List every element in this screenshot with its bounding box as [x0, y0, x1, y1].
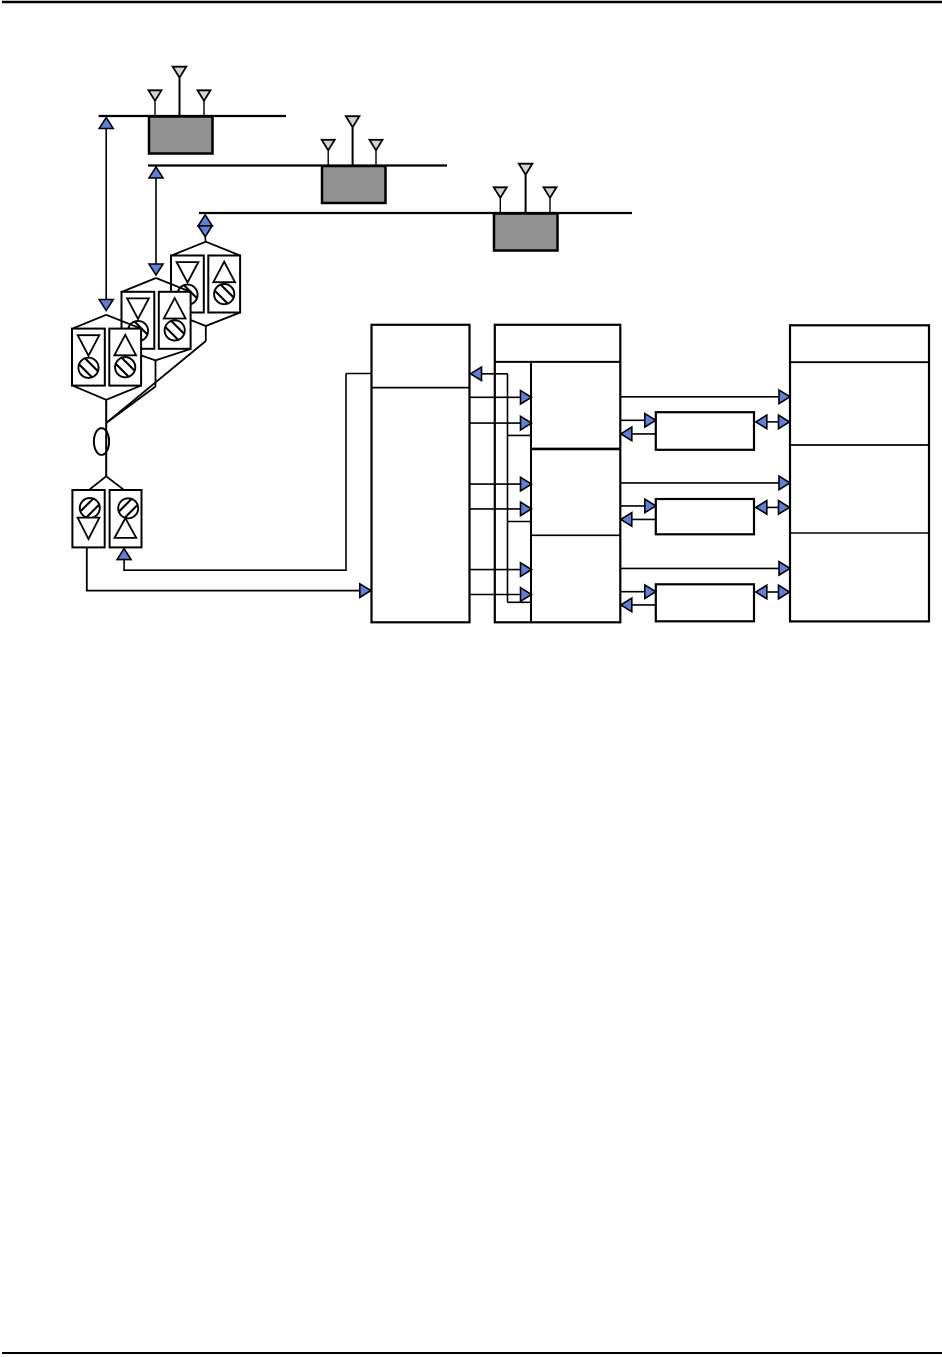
wire duplexer B drop — [155, 360, 157, 386]
duplexer unit A top roof — [73, 315, 107, 329]
duplexer C TX amplifier — [213, 262, 235, 283]
block U2 subbox divider 1 — [531, 448, 620, 451]
antenna mast right 2 — [375, 150, 377, 165]
arrow U1-U2 link 4 — [521, 502, 532, 516]
wire feeder drop 1 — [105, 129, 107, 300]
wire coupler-U3 3 — [765, 591, 780, 593]
arrow U2 to U1 — [471, 367, 482, 381]
wire feeder drop 3 — [204, 237, 206, 242]
duplexer A bottom roof — [73, 386, 107, 400]
wire U1-U2 link 5 — [470, 569, 521, 571]
wire U2-coupler 1 — [620, 419, 645, 421]
arrow down to duplexer B — [149, 264, 163, 275]
duplexer unit A TX cell — [109, 329, 141, 386]
wire duplexer C diagonal — [106, 341, 206, 423]
arrow down to duplexer A — [99, 300, 113, 311]
radio unit box 3 — [494, 214, 558, 251]
radio unit box 2 — [322, 166, 386, 203]
wire U2-coupler 2 — [620, 505, 645, 507]
duplexer B bottom roof — [122, 349, 156, 361]
block main unit U1 — [372, 325, 470, 623]
arrow U1-U2 link 1 — [521, 391, 532, 405]
wire combiner drop — [105, 400, 107, 477]
wire TX across — [123, 569, 346, 571]
arrow TX into lower filter — [117, 549, 131, 560]
lower filter unit RX cell — [72, 490, 104, 547]
wire TX stem — [123, 560, 125, 571]
arrow coupler-U3 left head 3 — [756, 585, 767, 599]
block U1 divider — [372, 387, 470, 389]
wire U2 stub 1 — [508, 434, 532, 436]
antenna left 3 — [494, 187, 507, 198]
wire RX output across — [87, 590, 360, 592]
duplexer unit A RX cell — [72, 329, 105, 386]
arrow up to feeder 2 — [149, 167, 163, 178]
wire U2-U3 link 2 — [620, 482, 779, 484]
antenna right 2 — [370, 140, 383, 151]
arrow coupler-U3 right head 3 — [779, 585, 790, 599]
arrow U2-coupler 1 — [645, 414, 656, 428]
duplexer B TX amplifier — [164, 298, 186, 319]
duplexer unit B RX cell — [122, 292, 155, 349]
wire coupler-U2 3 — [632, 604, 657, 606]
duplexer A TX filter — [115, 357, 135, 377]
wire U2-U3 link 1 — [620, 396, 779, 398]
wire U2-U1 stem — [482, 373, 508, 375]
duplexer B RX amplifier — [127, 298, 149, 319]
lower filter RX amplifier — [78, 518, 100, 539]
arrow U1-U2 link 3 — [521, 477, 532, 491]
wire U1-U2 link 6 — [470, 594, 521, 596]
page footer rule — [2, 1352, 942, 1354]
block U3 divider 2 — [790, 444, 929, 446]
arrow U2-U3 link 1 — [779, 390, 790, 404]
radio unit box 1 — [149, 117, 213, 154]
antenna center 2 — [346, 116, 360, 127]
wire duplexer C drop — [205, 326, 207, 341]
arrow U2-U3 link 3 — [779, 562, 790, 576]
wire U2-U3 link 3 — [620, 567, 779, 569]
wire TX top across — [346, 373, 372, 375]
block U3 divider 1 — [790, 361, 929, 363]
duplexer A RX amplifier — [78, 335, 100, 356]
duplexer unit C TX cell — [208, 256, 240, 313]
coupler box 1 — [656, 412, 754, 450]
wire U1-U2 link 4 — [470, 508, 521, 510]
wire antenna feeder line 2 — [148, 164, 447, 166]
duplexer unit C top roof — [172, 242, 206, 256]
antenna left 2 — [322, 140, 335, 151]
arrow coupler-U3 left head 2 — [756, 501, 767, 515]
wire coupler-U2 2 — [632, 518, 657, 520]
combiner loop ellipse — [94, 428, 109, 455]
arrow coupler-U2 3 — [621, 598, 632, 612]
antenna left 1 — [149, 90, 162, 101]
arrow coupler-U3 left head 1 — [756, 415, 767, 429]
duplexer unit B top roof — [122, 278, 156, 292]
arrow coupler-U3 right head 2 — [779, 501, 790, 515]
arrow U1-U2 link 2 — [521, 416, 532, 430]
antenna right 1 — [198, 90, 211, 101]
wire coupler-U3 2 — [765, 506, 780, 508]
coupler box 3 — [656, 584, 754, 621]
arrow down from feeder 3 — [198, 226, 212, 237]
wire feeder drop 2 — [155, 178, 157, 264]
block U3 divider 3 — [790, 532, 929, 534]
arrow up to feeder 3 — [198, 215, 212, 226]
duplexer C TX filter — [214, 284, 234, 304]
arrow U1-U2 link 6 — [521, 588, 532, 602]
lower filter unit TX cell — [110, 490, 142, 547]
duplexer A RX filter — [78, 358, 98, 378]
block interface unit U2 — [495, 325, 621, 623]
wire U2 stub 2 — [508, 521, 532, 523]
antenna mast right 3 — [549, 198, 551, 213]
block U2 divider — [495, 361, 621, 363]
arrow U1-U2 link 5 — [521, 563, 532, 577]
arrow RX into main unit — [360, 584, 371, 598]
wire U2 inner riser — [507, 374, 509, 603]
duplexer unit B TX cell — [159, 292, 191, 349]
wire antenna feeder line 3 — [199, 212, 632, 214]
antenna mast center 1 — [179, 77, 181, 116]
lower filter TX amplifier — [115, 518, 137, 538]
block right rack U3 — [790, 325, 929, 621]
duplexer B TX filter — [165, 320, 185, 340]
wire U1-U2 link 3 — [470, 483, 521, 485]
lower filter unit top roof — [89, 476, 107, 490]
wire RX output down — [86, 547, 88, 591]
arrow coupler-U2 2 — [621, 513, 632, 527]
wire U1-U2 link 1 — [470, 396, 521, 398]
antenna mast left 3 — [499, 198, 501, 213]
antenna center 3 — [519, 164, 533, 175]
arrow U2-U3 link 2 — [779, 476, 790, 490]
antenna center 1 — [173, 67, 187, 78]
wire U2-coupler 3 — [620, 591, 645, 593]
block U2 subbox divider 2 — [531, 534, 620, 536]
duplexer C RX amplifier — [177, 262, 199, 283]
block U2 inner column edge — [530, 362, 532, 622]
arrow U2-coupler 2 — [645, 499, 656, 513]
antenna mast center 2 — [352, 127, 354, 166]
page header rule — [2, 1, 942, 4]
antenna right 3 — [544, 187, 557, 198]
duplexer B RX filter — [128, 321, 148, 341]
duplexer C bottom roof — [172, 313, 206, 327]
arrow coupler-U2 1 — [621, 427, 632, 441]
wire coupler-U3 1 — [765, 421, 780, 423]
antenna mast center 3 — [525, 174, 527, 213]
wire U1-U2 link 2 — [470, 422, 521, 424]
wire TX riser — [345, 374, 347, 572]
arrow up to feeder 1 — [99, 118, 113, 129]
coupler box 2 — [656, 499, 754, 534]
antenna mast right 1 — [203, 101, 205, 116]
wire antenna feeder line 1 — [99, 115, 286, 117]
lower filter RX filter — [80, 498, 100, 518]
duplexer C RX filter — [177, 285, 197, 305]
lower filter TX filter — [118, 498, 138, 518]
arrow U2-coupler 3 — [645, 585, 656, 599]
antenna mast left 1 — [154, 101, 156, 116]
duplexer A TX amplifier — [114, 335, 136, 356]
antenna mast left 2 — [327, 150, 329, 165]
wire U2 stub 3 — [508, 601, 532, 603]
arrow coupler-U3 right head 1 — [779, 415, 790, 429]
wire duplexer B diagonal — [106, 387, 155, 424]
wire coupler-U2 1 — [632, 433, 657, 435]
duplexer unit C RX cell — [171, 256, 204, 313]
